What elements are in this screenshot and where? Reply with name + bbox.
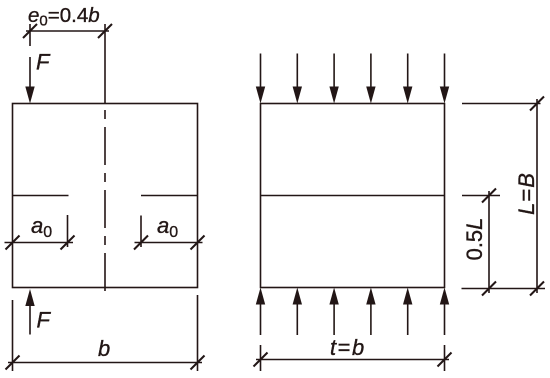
a0 right extension bbox=[140, 216, 142, 248]
bottom distributed load arrows bbox=[256, 288, 449, 336]
svg-text:a0: a0 bbox=[31, 213, 52, 241]
e0 dimension line bbox=[26, 30, 109, 32]
tick L=B bottom bbox=[530, 282, 544, 296]
left notch line bbox=[13, 195, 69, 197]
b dimension line bbox=[8, 362, 202, 364]
svg-text:F: F bbox=[37, 308, 52, 333]
svg-text:a0: a0 bbox=[157, 213, 178, 241]
b dimension: right extension bbox=[197, 295, 199, 371]
tick 0.5L bottom bbox=[482, 282, 496, 296]
svg-text:F: F bbox=[36, 50, 51, 75]
left specimen square bbox=[13, 104, 198, 288]
L=B dimension: top extension bbox=[462, 103, 541, 105]
tick b right bbox=[191, 356, 205, 370]
tick e0 left bbox=[23, 24, 37, 38]
0.5L dimension: mid extension bbox=[462, 195, 500, 197]
a0 left extension bbox=[67, 215, 69, 247]
tick b left bbox=[6, 356, 20, 370]
tick 0.5L top bbox=[482, 189, 496, 203]
right specimen rectangle bbox=[261, 104, 445, 288]
force F arrowhead bottom bbox=[25, 289, 34, 306]
t=b dimension line bbox=[256, 359, 449, 361]
mid horizontal line bbox=[261, 195, 445, 197]
force F arrow bottom (shaft) bbox=[29, 305, 31, 335]
L=B dimension line bbox=[536, 99, 538, 293]
right notch line bbox=[141, 195, 198, 197]
svg-text:t=b: t=b bbox=[330, 335, 364, 360]
t=b dimension: right extension bbox=[444, 345, 446, 371]
tick a0 l2 bbox=[61, 236, 75, 250]
t=b dimension: left extension bbox=[260, 345, 262, 371]
svg-text:e0=0.4b: e0=0.4b bbox=[28, 4, 100, 30]
top distributed load arrows bbox=[256, 54, 449, 104]
a0 dimension left: line bbox=[5, 242, 74, 244]
centerline dash-dot bbox=[104, 110, 106, 296]
svg-text:b: b bbox=[98, 336, 110, 361]
force F arrowhead top bbox=[25, 87, 34, 104]
shared bottom extension bbox=[462, 288, 546, 290]
b dimension: left extension bbox=[12, 300, 14, 371]
tick a0 r2 bbox=[191, 236, 205, 250]
tick a0 l1 bbox=[6, 236, 20, 250]
svg-text:L=B: L=B bbox=[514, 173, 539, 215]
centerline extension above square bbox=[104, 24, 106, 104]
e0 left extension line bbox=[29, 24, 31, 46]
tick a0 r1 bbox=[134, 236, 148, 250]
svg-text:0.5L: 0.5L bbox=[462, 218, 487, 261]
0.5L dimension line bbox=[488, 191, 490, 293]
force F arrow top (shaft) bbox=[29, 57, 31, 88]
tick L=B top bbox=[530, 97, 544, 111]
a0 dimension right: line bbox=[135, 242, 203, 244]
tick t=b left bbox=[254, 353, 268, 367]
tick e0 right bbox=[98, 24, 112, 38]
tick t=b right bbox=[438, 353, 452, 367]
